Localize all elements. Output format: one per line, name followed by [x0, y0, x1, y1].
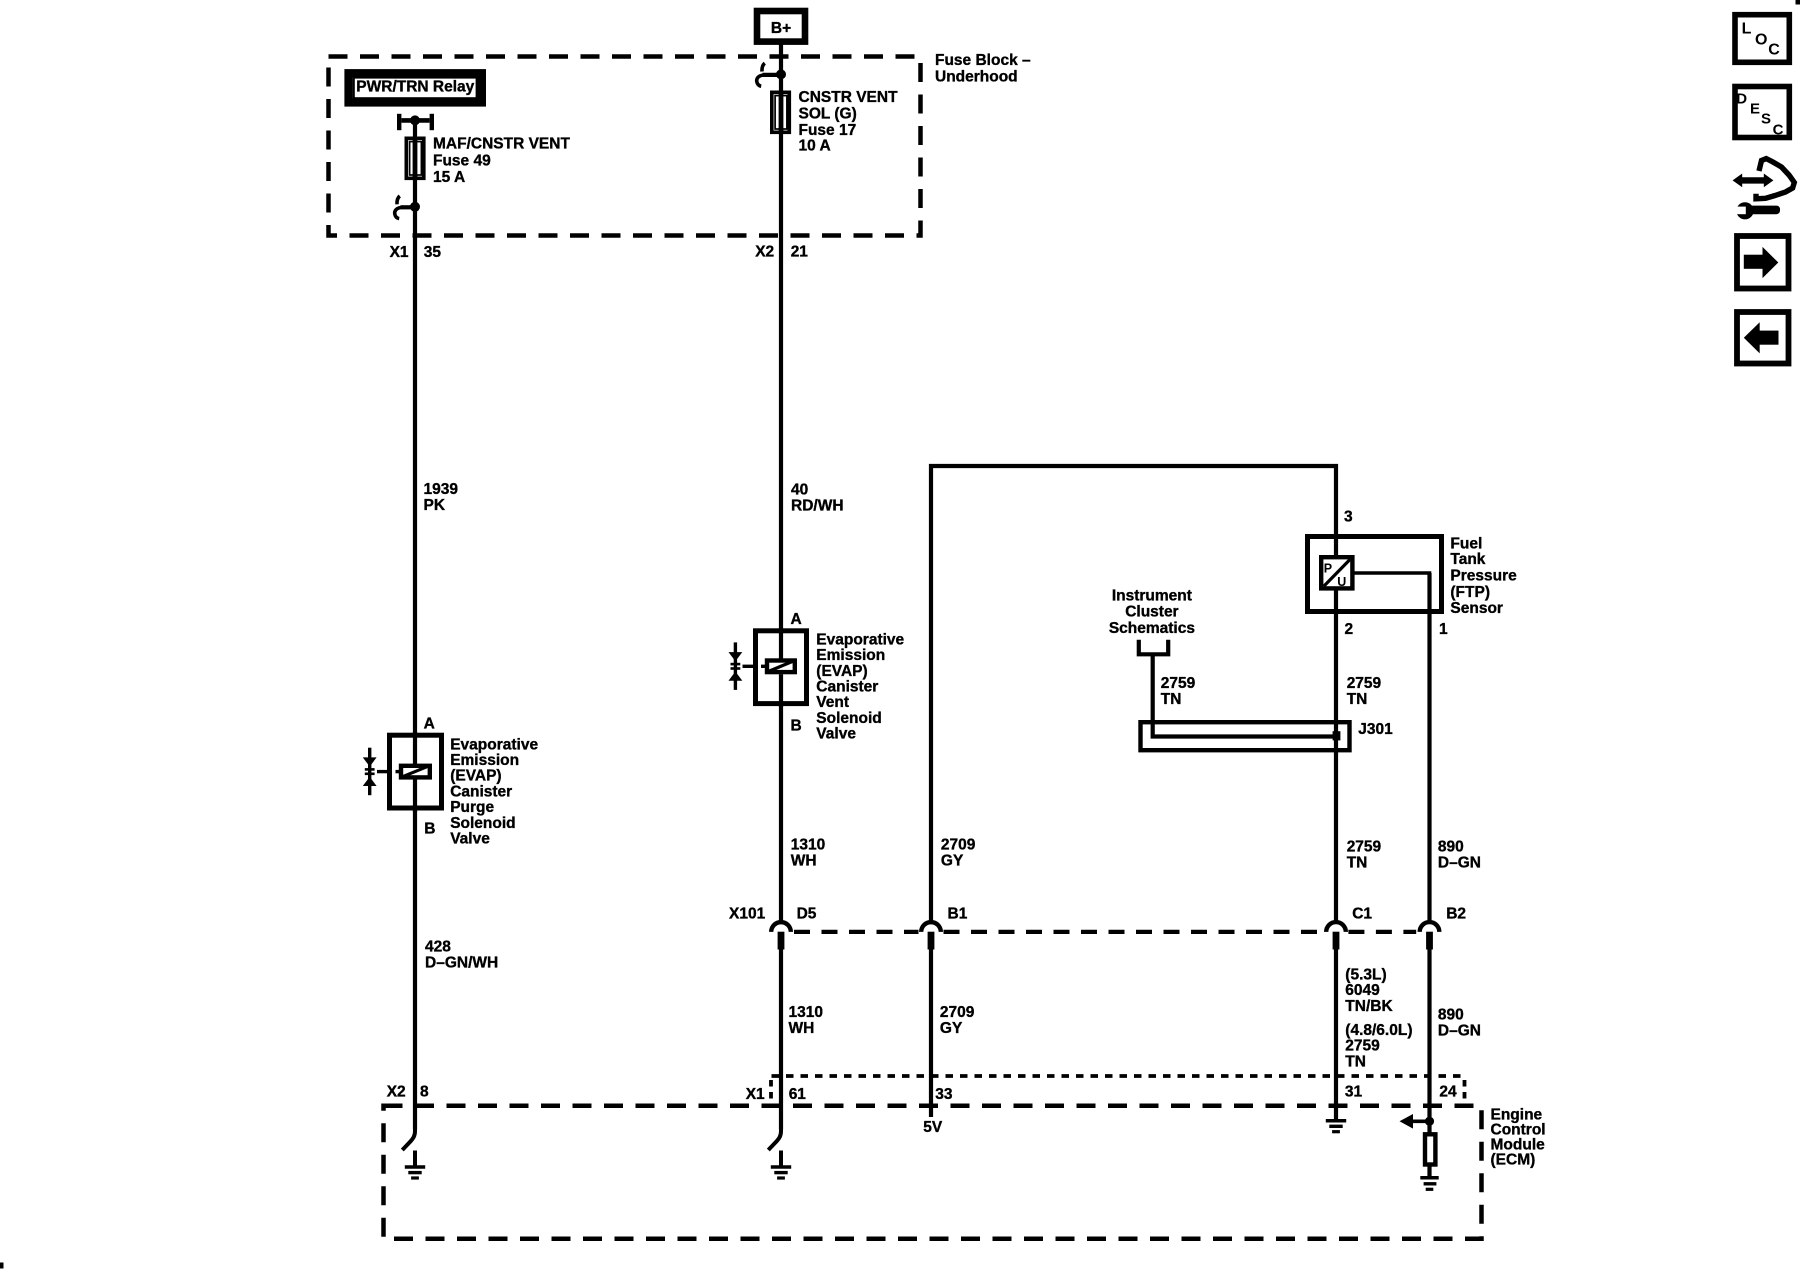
connector terminal B1	[921, 905, 967, 949]
svg-text:RD/WH: RD/WH	[791, 498, 844, 515]
svg-text:2709: 2709	[941, 837, 976, 854]
svg-text:31: 31	[1345, 1083, 1363, 1100]
svg-text:WH: WH	[791, 853, 817, 870]
svg-text:2: 2	[1345, 621, 1354, 638]
off-page connector bracket	[1139, 640, 1168, 655]
svg-text:D–GN: D–GN	[1438, 854, 1481, 871]
X101 dashed connector line	[794, 930, 1416, 934]
svg-text:PWR/TRN Relay: PWR/TRN Relay	[356, 78, 474, 95]
svg-text:(EVAP): (EVAP)	[816, 663, 867, 680]
svg-text:1939: 1939	[424, 481, 459, 498]
svg-text:40: 40	[791, 482, 808, 499]
svg-text:A: A	[424, 716, 435, 733]
wire 2709 GY (5V reference, corner to FTP)	[931, 466, 1336, 920]
svg-text:2759: 2759	[1345, 1038, 1380, 1055]
pressure transducer P/U	[1321, 557, 1352, 589]
svg-text:O: O	[1755, 32, 1767, 49]
svg-text:21: 21	[791, 243, 809, 260]
svg-text:(FTP): (FTP)	[1450, 584, 1490, 601]
svg-text:Valve: Valve	[450, 831, 490, 848]
pin label X1 35	[390, 244, 442, 261]
svg-text:C: C	[1773, 121, 1784, 138]
svg-text:35: 35	[424, 244, 442, 261]
label MAF/CNSTR VENT Fuse 49 15 A	[433, 136, 570, 187]
relay output terminal socket	[399, 114, 432, 130]
wire right column (B+ to EVAP vent valve)	[779, 44, 783, 659]
svg-text:GY: GY	[941, 853, 964, 870]
svg-text:Fuel: Fuel	[1450, 535, 1482, 552]
ECM internal switch contact (pin 61)	[768, 1126, 781, 1150]
svg-text:Vent: Vent	[816, 694, 849, 711]
svg-text:WH: WH	[789, 1020, 815, 1037]
svg-text:Purge: Purge	[450, 799, 494, 816]
svg-text:Fuse 49: Fuse 49	[433, 152, 491, 169]
svg-text:D5: D5	[797, 905, 817, 922]
svg-text:6049: 6049	[1345, 982, 1380, 999]
svg-text:TN: TN	[1161, 691, 1182, 708]
svg-text:Cluster: Cluster	[1125, 604, 1178, 621]
svg-text:TN: TN	[1347, 854, 1368, 871]
svg-text:E: E	[1750, 100, 1760, 117]
wire 1310 WH (D5 to ECM 61)	[779, 949, 783, 1130]
svg-text:CNSTR VENT: CNSTR VENT	[799, 89, 899, 106]
wire 890 D-GN (FTP pin 1 to B2)	[1427, 573, 1431, 920]
svg-text:PK: PK	[424, 497, 446, 514]
wire 428 D-GN/WH (valve B to ECM)	[413, 810, 417, 1130]
wire label 2759 TN (cluster branch)	[1161, 675, 1196, 708]
svg-text:B: B	[424, 821, 435, 838]
suppression diodes (purge valve)	[363, 748, 377, 796]
fuse MAF/CNSTR VENT Fuse 49 15 A	[406, 137, 424, 181]
svg-text:Valve: Valve	[816, 726, 856, 743]
svg-text:L: L	[1742, 21, 1752, 38]
svg-text:Evaporative: Evaporative	[816, 631, 904, 648]
svg-text:X2: X2	[387, 1083, 406, 1100]
wire 1310 WH (vent valve B to X101)	[779, 705, 783, 920]
fuse CNSTR VENT SOL (G) Fuse 17 10 A	[772, 91, 790, 135]
EVAP canister vent solenoid valve	[743, 628, 807, 707]
svg-text:X1: X1	[746, 1086, 765, 1103]
svg-text:D: D	[1736, 90, 1747, 107]
wire 2759 TN (instrument cluster to J301)	[1153, 654, 1336, 736]
svg-text:(ECM): (ECM)	[1491, 1151, 1536, 1168]
svg-text:SOL (G): SOL (G)	[799, 105, 857, 122]
page corner mark top-right	[1796, 0, 1800, 5]
label CNSTR VENT SOL (G) Fuse 17 10 A	[799, 89, 899, 155]
svg-text:1: 1	[1439, 621, 1448, 638]
svg-text:C1: C1	[1352, 905, 1372, 922]
svg-text:B1: B1	[948, 905, 968, 922]
sidebar icon DESC	[1735, 87, 1789, 139]
svg-text:2759: 2759	[1347, 675, 1382, 692]
svg-text:Sensor: Sensor	[1450, 600, 1503, 617]
svg-text:8: 8	[420, 1083, 429, 1100]
wire label 2709 GY upper	[941, 837, 976, 870]
svg-text:33: 33	[935, 1086, 953, 1103]
pin label X2 21	[755, 243, 808, 260]
wire label (5.3L) 6049 TN/BK	[1345, 967, 1393, 1015]
sidebar icon back arrow	[1737, 312, 1789, 364]
wire label 2759 TN (above C1)	[1347, 838, 1382, 871]
svg-text:Emission: Emission	[450, 752, 519, 769]
svg-text:X101: X101	[729, 905, 766, 922]
wire label 40 RD/WH	[791, 482, 844, 515]
connector terminal D5	[771, 905, 817, 949]
svg-text:Schematics: Schematics	[1109, 620, 1195, 637]
svg-text:C: C	[1768, 42, 1780, 59]
svg-text:5V: 5V	[923, 1119, 943, 1136]
pin label X2 8	[387, 1083, 429, 1100]
node B+	[757, 11, 805, 42]
svg-text:A: A	[791, 611, 802, 628]
label Instrument Cluster Schematics	[1109, 587, 1195, 637]
svg-text:2759: 2759	[1347, 838, 1382, 855]
sensor FTP Fuel Tank Pressure	[1308, 537, 1442, 612]
label Fuse Block - Underhood	[935, 52, 1031, 85]
svg-text:GY: GY	[940, 1020, 963, 1037]
svg-text:D–GN/WH: D–GN/WH	[425, 954, 498, 971]
label EVAP canister vent solenoid valve	[816, 631, 904, 742]
connector terminal C1	[1326, 905, 1372, 949]
svg-text:TN: TN	[1347, 691, 1368, 708]
wire label 1939 PK	[424, 481, 459, 514]
label Engine Control Module (ECM)	[1491, 1106, 1546, 1168]
svg-text:B: B	[791, 718, 802, 735]
terminal clip on left wire	[395, 196, 420, 219]
wire label 890 D-GN lower	[1438, 1006, 1481, 1039]
svg-text:Tank: Tank	[1450, 551, 1485, 568]
ECM dashed box	[384, 1106, 1482, 1239]
svg-text:MAF/CNSTR VENT: MAF/CNSTR VENT	[433, 136, 570, 153]
wire label 1310 WH lower	[789, 1004, 823, 1037]
svg-text:(5.3L): (5.3L)	[1345, 967, 1386, 984]
connector terminal B2	[1420, 905, 1466, 949]
ECM connector X1 dotted boundary	[771, 1076, 1465, 1104]
page corner mark bottom-left	[0, 1263, 4, 1269]
sidebar icon shortcut arrows and wrench	[1730, 159, 1794, 220]
wire resistor to ground	[1427, 1165, 1431, 1178]
svg-text:2759: 2759	[1161, 675, 1196, 692]
svg-text:Evaporative: Evaporative	[450, 736, 538, 753]
svg-text:B+: B+	[771, 20, 791, 37]
svg-text:(4.8/6.0L): (4.8/6.0L)	[1345, 1022, 1412, 1039]
ground (ECM pin 31)	[1326, 1121, 1346, 1132]
svg-text:J301: J301	[1358, 721, 1393, 738]
svg-text:1310: 1310	[791, 837, 825, 854]
svg-text:890: 890	[1438, 1006, 1464, 1023]
label Fuel Tank Pressure (FTP) Sensor	[1450, 535, 1517, 617]
EVAP canister purge solenoid valve	[377, 732, 442, 812]
svg-text:B2: B2	[1446, 905, 1466, 922]
svg-text:61: 61	[789, 1086, 807, 1103]
wire 2759 TN (FTP pin 2 to C1)	[1334, 590, 1338, 920]
label EVAP canister purge solenoid valve	[450, 736, 538, 847]
svg-text:TN: TN	[1345, 1053, 1366, 1070]
resistor (ECM internal pull-up)	[1425, 1134, 1435, 1164]
svg-text:Pressure: Pressure	[1450, 567, 1517, 584]
wire label (4.8/6.0L) 2759 TN	[1345, 1022, 1412, 1070]
fuse block - underhood dashed box	[329, 57, 921, 236]
wire label 2709 GY lower	[940, 1004, 975, 1037]
wire label 428 D-GN/WH	[425, 938, 498, 971]
ground (ECM pin 8)	[405, 1151, 425, 1179]
sidebar icon LOC	[1735, 15, 1789, 63]
svg-text:S: S	[1761, 111, 1771, 128]
ground (ECM resistor)	[1420, 1178, 1438, 1190]
svg-text:24: 24	[1439, 1083, 1457, 1100]
wire label 1310 WH upper	[791, 837, 825, 870]
svg-text:10 A: 10 A	[799, 137, 831, 154]
svg-text:Solenoid: Solenoid	[450, 815, 515, 832]
svg-text:U: U	[1337, 575, 1346, 589]
svg-text:428: 428	[425, 938, 451, 955]
terminal clip on B+ wire	[757, 63, 786, 86]
ECM internal switch contact (pin 8)	[402, 1126, 415, 1150]
svg-text:X2: X2	[755, 243, 774, 260]
FTP internal wires	[1336, 534, 1430, 614]
svg-text:3: 3	[1344, 509, 1353, 526]
svg-text:2709: 2709	[940, 1004, 975, 1021]
svg-text:Emission: Emission	[816, 647, 885, 664]
relay PWR/TRN Relay	[348, 73, 482, 103]
signal arrow (ECM pin 24 to other circuit)	[1400, 1114, 1435, 1129]
svg-text:Canister: Canister	[450, 783, 512, 800]
svg-text:X1: X1	[390, 244, 409, 261]
wire 890 D-GN (B2 to ECM 24)	[1427, 949, 1431, 1135]
svg-text:(EVAP): (EVAP)	[450, 768, 501, 785]
wire 2709 GY (B1 to ECM 33)	[929, 949, 933, 1118]
svg-text:Underhood: Underhood	[935, 68, 1018, 85]
splice pack J301	[1141, 721, 1394, 750]
svg-text:Instrument: Instrument	[1112, 587, 1192, 604]
suppression diodes (vent valve)	[729, 642, 743, 690]
svg-text:1310: 1310	[789, 1004, 823, 1021]
wire left column (relay to EVAP purge valve)	[413, 118, 417, 764]
svg-text:Canister: Canister	[816, 679, 878, 696]
wire label 2759 TN (FTP branch)	[1347, 675, 1382, 708]
svg-text:D–GN: D–GN	[1438, 1022, 1481, 1039]
sidebar icon forward arrow	[1737, 236, 1789, 289]
svg-text:Fuse Block –: Fuse Block –	[935, 52, 1031, 69]
svg-text:Solenoid: Solenoid	[816, 710, 881, 727]
svg-text:TN/BK: TN/BK	[1345, 998, 1393, 1015]
svg-text:890: 890	[1438, 838, 1464, 855]
wire 6049/2759 TN (C1 to ECM 31)	[1334, 949, 1338, 1122]
ground (ECM pin 61)	[771, 1151, 791, 1179]
svg-text:P: P	[1324, 562, 1332, 576]
svg-text:15 A: 15 A	[433, 169, 465, 186]
wire label 890 D-GN upper	[1438, 838, 1481, 871]
